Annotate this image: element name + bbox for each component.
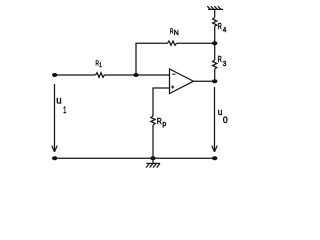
svg-text:1: 1: [99, 62, 102, 69]
node bottom ground junction: [150, 156, 155, 160]
svg-text:R: R: [218, 55, 222, 64]
op-amp minus sign: [172, 73, 175, 75]
node bottom left: [52, 156, 57, 160]
svg-text:u: u: [56, 96, 61, 107]
node bottom right: [212, 156, 217, 160]
resistor RN: [168, 41, 177, 45]
voltage arrow u0: [212, 87, 217, 152]
wire RN branch left corner: [136, 43, 168, 75]
voltage arrow u1: [52, 84, 57, 152]
svg-text:N: N: [174, 28, 179, 37]
wire R1 to op-amp inverting input: [104, 74, 169, 76]
supply rail hatch symbol top right: [207, 6, 223, 9]
resistor Rp: [151, 116, 155, 125]
wire supply to R4: [214, 9, 216, 17]
node R4/R3/RN junction: [212, 41, 217, 45]
wire op-amp noninverting input: [153, 88, 170, 116]
wire op-amp output: [194, 80, 215, 82]
wire left input: [55, 74, 96, 76]
wire Rp to ground rail: [152, 125, 154, 158]
svg-text:u: u: [218, 107, 223, 118]
svg-text:R: R: [218, 22, 222, 31]
wire node to R3: [214, 43, 216, 60]
node output: [212, 79, 217, 83]
svg-text:4: 4: [223, 27, 227, 34]
svg-text:1: 1: [63, 105, 66, 115]
ground symbol: [146, 158, 160, 167]
wire R4 to node: [214, 26, 216, 43]
resistor R4: [213, 18, 217, 27]
wire bottom rail: [55, 157, 215, 159]
resistor R1: [96, 73, 105, 78]
op-amp plus sign: [171, 86, 174, 88]
wire R3 to output node: [214, 69, 216, 81]
node inverting input junction: [133, 73, 138, 77]
svg-text:R: R: [157, 116, 162, 126]
op-amp U1: [170, 69, 194, 94]
wire RN to right node: [177, 42, 215, 44]
svg-text:0: 0: [223, 115, 228, 125]
node input left: [52, 73, 57, 77]
svg-text:3: 3: [223, 61, 227, 68]
svg-text:p: p: [162, 121, 166, 128]
resistor R3: [213, 60, 217, 69]
